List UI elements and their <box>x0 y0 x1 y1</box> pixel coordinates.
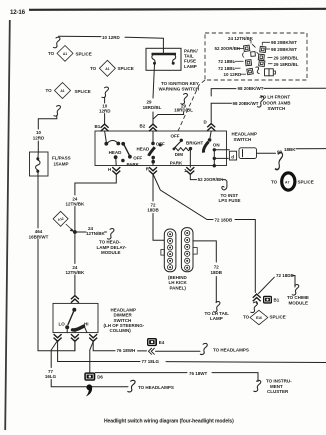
svg-text:10 12RD: 10 12RD <box>102 35 121 40</box>
hook to chime module <box>292 285 299 296</box>
hook to headlamps (76 wire) <box>200 343 207 354</box>
svg-text:15AMP: 15AMP <box>54 162 69 167</box>
svg-text:98 20BK/WT: 98 20BK/WT <box>271 40 297 45</box>
svg-text:OFF: OFF <box>156 142 165 147</box>
wire 77 18LG from LO to page edge <box>58 341 326 363</box>
switch side connector small square <box>229 151 236 160</box>
terminal H <box>112 167 120 174</box>
svg-text:PANEL): PANEL) <box>170 285 187 290</box>
svg-text:OFF: OFF <box>171 133 180 138</box>
svg-text:18DB: 18DB <box>211 270 223 275</box>
svg-text:SWITCH: SWITCH <box>268 106 286 111</box>
svg-text:12TN/BK: 12TN/BK <box>66 270 86 275</box>
svg-text:ON: ON <box>213 142 220 147</box>
svg-text:72 18DB: 72 18DB <box>276 273 295 278</box>
terminal chevron at E16 junction <box>253 294 261 301</box>
junction node <box>73 230 77 234</box>
svg-text:TO: TO <box>48 51 55 56</box>
hook to LH tail lamp <box>213 302 220 313</box>
top rule <box>29 9 326 10</box>
dashed leader to headlamp switch <box>178 80 205 131</box>
svg-text:MODULE: MODULE <box>289 300 309 305</box>
kick panel connector strip left <box>161 229 176 272</box>
terminal 1 <box>186 167 194 174</box>
svg-text:TO HEADLAMPS: TO HEADLAMPS <box>213 347 249 352</box>
dimmer bottom terminal HI <box>89 334 97 341</box>
bold comma symbol below D6 <box>86 384 92 396</box>
svg-text:d: d <box>231 154 234 159</box>
hook from A1 to B1 feed <box>102 87 109 98</box>
fuse element <box>36 152 40 176</box>
splice E16 diamond <box>250 310 268 324</box>
wire 24 12TN/BK from H to dimmer <box>75 174 116 295</box>
svg-text:D6: D6 <box>97 374 103 379</box>
wire 76 18WT from D6 to instrument cluster <box>95 373 258 382</box>
svg-text:TO LH TAIL: TO LH TAIL <box>205 311 230 316</box>
wire 98 20BK/WT to page edge <box>211 88 326 122</box>
splice A1 diamond (second) <box>90 60 134 76</box>
svg-text:WARNING SWITCH: WARNING SWITCH <box>159 87 200 92</box>
terminal B1 <box>101 124 109 131</box>
svg-text:LPS FUSE: LPS FUSE <box>219 198 241 203</box>
svg-text:29 18RD/BL: 29 18RD/BL <box>274 62 299 67</box>
svg-text:LAMP: LAMP <box>210 316 223 321</box>
page connector E4 (black box) <box>147 338 157 346</box>
wire 29 18RD/BL fuse to B2 <box>153 65 155 124</box>
svg-text:52 20OR/BK: 52 20OR/BK <box>198 177 225 182</box>
switch pole 2 internals (B2/R) <box>137 131 183 166</box>
page connector D6 (black box) <box>84 372 95 380</box>
splice A7 ring <box>282 173 295 190</box>
svg-text:SPLICE: SPLICE <box>118 66 134 71</box>
wire 72 18DB branch diagonal to right <box>153 174 255 293</box>
svg-text:A7: A7 <box>285 180 289 184</box>
svg-text:HEAD: HEAD <box>109 150 123 155</box>
page connector B1 (black box) <box>263 296 272 304</box>
wire 72 18DB from R down <box>153 174 164 240</box>
svg-text:76 18WH: 76 18WH <box>117 348 136 353</box>
svg-text:12TN/BK: 12TN/BK <box>86 231 106 236</box>
svg-text:12RD: 12RD <box>33 135 45 140</box>
svg-text:16BR/WT: 16BR/WT <box>29 234 49 239</box>
dimmer bottom terminal mid <box>71 334 79 341</box>
fuse FL/PASS 15AMP box <box>30 152 49 176</box>
switch pole 1 internals (B1/H) <box>104 131 142 167</box>
terminal D <box>207 124 215 131</box>
svg-text:12RD: 12RD <box>99 108 111 113</box>
svg-text:98 20BK/WT: 98 20BK/WT <box>233 101 259 106</box>
wire 98 20BK/WT to door jamb <box>211 102 231 104</box>
svg-text:72: 72 <box>214 265 220 270</box>
inline connector chevrons on 76 wire <box>149 348 155 355</box>
wire from HI diagonal to D6 <box>90 342 93 373</box>
svg-text:16LG: 16LG <box>45 374 57 379</box>
svg-text:TO: TO <box>90 66 97 71</box>
svg-text:CLUSTER: CLUSTER <box>267 389 289 394</box>
svg-text:BRIGHT: BRIGHT <box>186 141 203 146</box>
kick panel connector strip right <box>181 228 197 272</box>
svg-text:18DB: 18DB <box>147 208 159 213</box>
svg-text:29 18RD/BL: 29 18RD/BL <box>274 55 299 60</box>
switch pole 4 internals (main/ON) <box>203 131 229 167</box>
svg-text:12TN/BK: 12TN/BK <box>66 201 86 206</box>
hook to inst lps fuse <box>222 186 227 190</box>
svg-text:TO HEADLAMPS: TO HEADLAMPS <box>138 385 174 390</box>
svg-text:TO: TO <box>46 88 53 93</box>
terminal R <box>149 167 157 174</box>
headlamp switch box <box>95 131 227 166</box>
hook wire 18RD/BL into B2 <box>181 94 188 105</box>
svg-text:A1: A1 <box>105 67 109 71</box>
svg-text:HEADLAMP: HEADLAMP <box>232 132 258 137</box>
svg-text:72 18DB: 72 18DB <box>215 217 234 222</box>
hook to headlamp delay module <box>107 229 114 240</box>
svg-text:SPLICE: SPLICE <box>270 315 286 320</box>
svg-text:FL/PASS: FL/PASS <box>52 155 71 160</box>
wire 76 18WH from HI to headlamps <box>93 341 200 352</box>
splice A1 diamond (third) <box>46 83 91 99</box>
svg-text:TO: TO <box>271 180 278 185</box>
svg-text:OFF: OFF <box>133 155 142 160</box>
fuse element (bar with hooks) <box>152 54 177 65</box>
dimmer internals <box>59 308 89 333</box>
svg-text:B1: B1 <box>95 124 101 129</box>
svg-text:18RD/BL: 18RD/BL <box>143 105 162 110</box>
svg-text:Headlight switch wiring diagra: Headlight switch wiring diagram (four-he… <box>104 419 234 425</box>
svg-text:SPLICE: SPLICE <box>76 52 92 57</box>
svg-text:18BK: 18BK <box>284 147 296 152</box>
svg-text:SWITCH: SWITCH <box>234 137 252 142</box>
connector pin cluster <box>243 44 276 76</box>
left page border <box>5 20 10 430</box>
hook to A7 splice <box>275 153 283 170</box>
wire 72 18DB from right strip to LH tail lamp <box>193 241 216 303</box>
headlamp dimmer switch box <box>53 303 98 332</box>
svg-text:MODULE: MODULE <box>101 250 121 255</box>
svg-text:B1: B1 <box>274 298 280 303</box>
wire 24 12TN/BK to headlamp delay module <box>75 231 107 233</box>
svg-text:72 18BL: 72 18BL <box>218 59 236 64</box>
svg-text:DOOR JAMB: DOOR JAMB <box>263 100 291 105</box>
svg-text:LAMP: LAMP <box>184 64 197 69</box>
wire 10 12RD to B1 <box>104 97 106 123</box>
switch side plug <box>239 148 257 159</box>
svg-text:18RD/BL: 18RD/BL <box>174 108 193 113</box>
svg-text:98 20BK/WT: 98 20BK/WT <box>271 47 297 52</box>
leader 72 18DB to chime module <box>259 276 296 294</box>
switch pole 3 internals (dimmer rheostat) <box>171 133 204 167</box>
wire 464 link to middle dimmer terminal <box>74 341 76 351</box>
terminal B2 <box>149 124 157 131</box>
svg-text:TO IGNITION KEY: TO IGNITION KEY <box>161 81 199 86</box>
dimmer top terminal <box>71 296 79 303</box>
svg-text:SPLICE: SPLICE <box>75 89 91 94</box>
wire 10 12RD top horizontal <box>59 36 164 52</box>
dimmer bottom terminal LO <box>54 334 62 341</box>
hook to headlamps (bottom) <box>127 380 135 392</box>
svg-text:PARK: PARK <box>170 160 183 165</box>
svg-text:29: 29 <box>146 99 152 104</box>
wire 77 16LG from LO <box>51 341 128 387</box>
hook to LH front door jamb switch <box>257 97 264 108</box>
hook to A1 above FL/PASS branch <box>54 106 61 117</box>
svg-text:A1: A1 <box>63 52 67 56</box>
svg-text:E16: E16 <box>256 316 262 320</box>
svg-text:77 18LG: 77 18LG <box>142 359 160 364</box>
svg-text:TO LH FRONT: TO LH FRONT <box>260 95 290 100</box>
svg-text:A1: A1 <box>60 89 64 93</box>
svg-text:76 18WT: 76 18WT <box>189 371 208 376</box>
dashed connector detail box <box>205 33 307 80</box>
wire 464 16BR/WT down from fuse <box>38 176 75 351</box>
svg-text:E4: E4 <box>159 340 165 345</box>
svg-text:COLUMN): COLUMN) <box>110 328 132 333</box>
splice A1 diamond (first) <box>48 46 92 62</box>
svg-text:B2: B2 <box>140 124 146 129</box>
hook to E16 splice <box>251 302 258 313</box>
svg-text:12-16: 12-16 <box>10 9 26 16</box>
svg-text:DIM: DIM <box>175 152 184 157</box>
wire 52 20OR/BK from terminal 1 <box>190 174 227 186</box>
svg-text:TO: TO <box>243 315 250 320</box>
svg-text:98 20BK/WT: 98 20BK/WT <box>238 86 264 91</box>
svg-text:H: H <box>108 167 111 172</box>
splice A12 diamond with arrow <box>53 211 75 232</box>
svg-text:SPLICE: SPLICE <box>298 180 314 185</box>
svg-text:10 12RD: 10 12RD <box>224 72 243 77</box>
fuse box PARK/TAIL LAMP FUSE <box>146 48 181 70</box>
wire 99 18BK to page edge <box>257 149 326 154</box>
svg-text:HEAD: HEAD <box>137 146 151 151</box>
svg-text:PARK: PARK <box>127 162 140 167</box>
svg-text:72 18BL: 72 18BL <box>218 66 236 71</box>
svg-text:HI: HI <box>84 321 89 326</box>
svg-text:LO: LO <box>59 321 66 326</box>
splice hook to A1 (top left) <box>53 37 60 48</box>
hook to instrument cluster <box>253 380 260 391</box>
wire 10 12RD down to FL/PASS fuse <box>38 116 57 153</box>
